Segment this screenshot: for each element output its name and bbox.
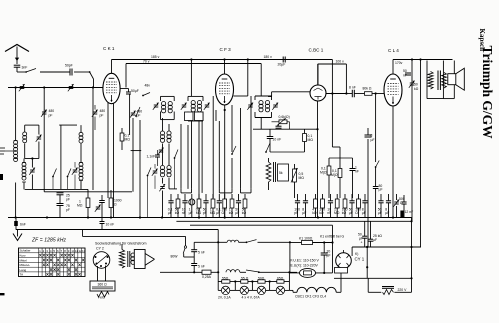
tube socket CY2 xyxy=(93,252,110,269)
capacitor 100pF xyxy=(294,194,300,218)
resistor 100kΩ xyxy=(319,194,325,218)
svg-text:MΩ: MΩ xyxy=(196,211,202,215)
coil choke 2 xyxy=(227,240,238,242)
svg-text:µF: µF xyxy=(216,211,220,215)
speaker frame xyxy=(443,61,454,99)
resistor K1 100 xyxy=(299,237,313,245)
switch xyxy=(52,169,56,190)
wire xyxy=(92,86,94,190)
label lamps xyxy=(218,296,260,300)
svg-text:Feld: Feld xyxy=(98,296,105,300)
switch xyxy=(231,146,236,155)
capacitor 10nF xyxy=(327,194,333,218)
svg-text:pF: pF xyxy=(49,114,53,118)
box CY1 xyxy=(335,268,348,274)
svg-text:220 V: 220 V xyxy=(398,288,408,292)
svg-text:C.BC 1: C.BC 1 xyxy=(309,48,324,53)
heater resistor xyxy=(119,244,124,268)
svg-text:0,25A: 0,25A xyxy=(202,275,212,279)
trimmer 500 xyxy=(393,194,404,218)
trimmer C xyxy=(68,84,74,91)
svg-text:kΩ: kΩ xyxy=(342,211,347,215)
svg-text:Sockelschaltung für Gleichstro: Sockelschaltung für Gleichstrom xyxy=(95,242,147,246)
svg-text:CY 2: CY 2 xyxy=(96,247,104,251)
svg-text:kΩ: kΩ xyxy=(175,211,180,215)
capacitor 50pF xyxy=(203,194,209,218)
coil L3 xyxy=(23,132,27,143)
svg-text:µF: µF xyxy=(362,211,366,215)
wire bus3 xyxy=(190,225,333,242)
capacitor 80uF xyxy=(373,94,383,218)
wire heater rail xyxy=(160,271,297,273)
coil RF choke xyxy=(226,270,240,273)
svg-text:MΩ: MΩ xyxy=(299,176,305,180)
capacitor 1.1nF xyxy=(147,150,161,166)
svg-text:50Ω: 50Ω xyxy=(258,277,265,281)
resistor 50kΩ xyxy=(242,194,247,218)
label ZF xyxy=(31,238,67,244)
svg-text:55Ω: 55Ω xyxy=(222,277,229,281)
capacitor 10nF xyxy=(100,218,115,230)
capacitor 8nF xyxy=(346,86,361,98)
resistor 65 xyxy=(277,277,284,284)
capacitor xyxy=(99,195,105,218)
wire xyxy=(0,0,1,1)
resistor 0.5M xyxy=(331,147,342,198)
label CY2 xyxy=(96,247,104,251)
wire xyxy=(113,103,115,218)
tube CF3 xyxy=(216,47,234,105)
tube CK1 xyxy=(103,46,120,104)
wire out bus xyxy=(393,58,453,60)
coil L5 xyxy=(79,132,83,143)
trimmer C xyxy=(272,103,278,110)
wire xyxy=(290,241,334,273)
wire xyxy=(411,60,413,222)
wire xyxy=(187,125,189,189)
trimmer C xyxy=(247,103,253,110)
svg-text:8: 8 xyxy=(371,134,373,138)
zigzag feld xyxy=(97,292,109,298)
capacitor 20uF xyxy=(278,57,286,67)
trimmer 480pF xyxy=(41,109,54,118)
padding capacitor xyxy=(185,112,204,121)
wire xyxy=(25,125,39,158)
resistor 100Ω xyxy=(222,194,228,218)
coil L6 xyxy=(79,163,83,190)
resistor 0.1M xyxy=(320,158,331,198)
svg-text:360 Ω: 360 Ω xyxy=(98,283,108,287)
wire xyxy=(410,218,412,293)
svg-text:2V, 0,1A: 2V, 0,1A xyxy=(218,296,231,300)
antenna xyxy=(5,45,29,65)
coil osc1 xyxy=(160,131,171,142)
wire xyxy=(224,105,226,218)
speaker xyxy=(448,68,465,90)
resistor 1MΩ xyxy=(334,194,340,218)
wire bus4 xyxy=(16,230,219,273)
table switch positions xyxy=(19,248,86,277)
resistor 0.1M xyxy=(270,129,313,152)
trimmer C xyxy=(29,159,35,190)
svg-text:pF: pF xyxy=(66,208,70,212)
svg-text:nF: nF xyxy=(355,170,359,174)
svg-text:4 x 4 V, 67A: 4 x 4 V, 67A xyxy=(242,296,261,300)
resistor 100Ω xyxy=(355,194,361,218)
wire xyxy=(0,0,1,1)
wire xyxy=(368,278,411,292)
switch xyxy=(25,69,36,73)
label K1 xyxy=(320,235,344,239)
svg-text:80k Ω: 80k Ω xyxy=(363,87,372,91)
capacitor 8µF xyxy=(362,194,368,218)
switch xyxy=(67,169,71,190)
svg-text:180 v: 180 v xyxy=(264,55,273,59)
resistor 0.1M xyxy=(120,128,130,150)
wire xyxy=(163,178,170,189)
wire xyxy=(192,121,220,189)
svg-text:pF: pF xyxy=(66,198,70,202)
svg-text:kΩ: kΩ xyxy=(319,211,324,215)
switch 80W xyxy=(171,246,195,259)
svg-text:50: 50 xyxy=(414,83,418,87)
coil osc2 xyxy=(160,166,171,177)
wire xyxy=(139,120,141,218)
variable resistor 50k xyxy=(409,81,419,91)
svg-text:Mittel+L: Mittel+L xyxy=(20,263,31,267)
capacitor 5nF xyxy=(191,242,205,254)
svg-text:CBC1 CK1 CF3 CL4: CBC1 CK1 CF3 CL4 xyxy=(295,295,326,299)
label 100V xyxy=(336,60,345,64)
trimmer R xyxy=(95,205,101,212)
wire xyxy=(174,158,176,189)
capacitor 25uF xyxy=(368,221,373,247)
wire bus2 xyxy=(176,220,412,222)
svg-text:µF: µF xyxy=(371,138,375,142)
wire xyxy=(223,58,225,74)
resistor 1kΩ xyxy=(229,194,234,218)
wire xyxy=(231,105,233,189)
wire xyxy=(253,118,318,130)
svg-text:pF: pF xyxy=(100,114,104,118)
svg-text:5 nF: 5 nF xyxy=(198,251,205,255)
trimmer C xyxy=(72,162,78,189)
trimmer C xyxy=(159,184,165,217)
label sockelschaltung xyxy=(95,242,147,246)
svg-text:480: 480 xyxy=(49,109,55,113)
label 50 25 xyxy=(358,233,382,245)
wire xyxy=(111,60,113,74)
mark xyxy=(0,293,5,295)
svg-text:pF: pF xyxy=(294,211,298,215)
svg-text:50pF: 50pF xyxy=(65,64,73,68)
lamp xyxy=(221,286,229,294)
resistor 55 xyxy=(222,277,230,284)
svg-text:8 nF: 8 nF xyxy=(349,86,356,90)
switch xyxy=(265,143,270,153)
svg-text:C L 4: C L 4 xyxy=(388,48,399,53)
wire xyxy=(0,0,1,1)
svg-text:Kurz: Kurz xyxy=(20,254,27,258)
svg-text:TA: TA xyxy=(20,273,24,277)
switch xyxy=(174,150,178,159)
svg-text:10 nF: 10 nF xyxy=(273,138,282,142)
wire xyxy=(332,146,340,148)
switch xyxy=(142,93,150,97)
svg-text:48v: 48v xyxy=(145,84,151,88)
title triumph xyxy=(480,46,495,140)
svg-text:Mittel: Mittel xyxy=(20,258,28,262)
capacitor 25pF xyxy=(57,193,70,203)
coil L1 xyxy=(14,141,18,162)
wire xyxy=(181,121,202,193)
wire xyxy=(198,121,200,218)
capacitor 50uF xyxy=(120,89,138,95)
svg-text:Ω: Ω xyxy=(355,211,358,215)
ground bus xyxy=(8,216,412,218)
tube CBC1 xyxy=(309,48,327,102)
label 180V xyxy=(264,55,273,59)
fuse 0.25A xyxy=(202,270,212,279)
capacitor xyxy=(401,195,406,218)
trimmer 480pF xyxy=(130,110,142,118)
wire xyxy=(25,188,88,190)
trimmer C xyxy=(36,125,42,158)
wire xyxy=(268,92,310,97)
capacitor 50µF xyxy=(378,194,384,218)
svg-text:13: 13 xyxy=(82,249,86,253)
variable resistor 0.6k xyxy=(272,115,290,129)
svg-text:µF: µF xyxy=(385,211,389,215)
switch xyxy=(147,168,151,218)
trimmer 480pF xyxy=(92,105,105,130)
lamp xyxy=(276,286,284,294)
capacitor 6nF xyxy=(14,218,26,230)
output transformer 2 xyxy=(128,251,135,267)
svg-text:480: 480 xyxy=(100,109,106,113)
svg-text:Triumph G/GW: Triumph G/GW xyxy=(480,46,495,140)
svg-text:nF: nF xyxy=(403,74,407,78)
wire xyxy=(15,86,17,218)
staple xyxy=(181,189,192,193)
resistor 360 xyxy=(90,281,115,291)
trimmer C xyxy=(153,103,159,110)
svg-text:0,6k(Ω): 0,6k(Ω) xyxy=(279,115,290,119)
capacitor xyxy=(350,158,359,198)
wire xyxy=(240,108,242,189)
capacitor 12nF xyxy=(400,210,413,217)
wire xyxy=(98,266,106,282)
IF transformer 3 xyxy=(255,96,272,118)
wire xyxy=(0,0,1,1)
wire xyxy=(59,125,81,132)
AF transformer xyxy=(266,158,288,190)
svg-text:55,Ω: 55,Ω xyxy=(241,277,249,281)
svg-text:50: 50 xyxy=(403,69,407,73)
wire xyxy=(44,191,132,193)
wire xyxy=(43,86,45,191)
switch xyxy=(89,71,94,87)
wire xyxy=(352,246,421,256)
wire xyxy=(212,96,214,198)
heater chain xyxy=(295,273,341,299)
wire xyxy=(420,60,422,248)
wire xyxy=(392,60,394,75)
resistor 100kΩ xyxy=(342,194,348,218)
svg-text:10 nF: 10 nF xyxy=(106,223,115,227)
wire xyxy=(318,64,348,95)
capacitor 8µF xyxy=(302,194,308,218)
output transformer xyxy=(427,61,446,99)
capacitor 20uF xyxy=(321,241,331,274)
svg-text:170v: 170v xyxy=(395,61,403,65)
wire anode xyxy=(326,93,346,95)
svg-text:Schalter: Schalter xyxy=(20,249,31,253)
svg-text:M(Ω): M(Ω) xyxy=(320,171,328,175)
svg-text:µF: µF xyxy=(373,238,377,242)
IF transformer 1 xyxy=(161,96,175,119)
capacitor 50nF xyxy=(403,69,411,78)
resistor 55 xyxy=(241,277,249,284)
capacitor 1µF xyxy=(189,194,195,218)
wire xyxy=(80,144,82,163)
trimmer C xyxy=(181,103,187,110)
svg-text:+: + xyxy=(361,241,363,245)
lamp ladder xyxy=(218,272,289,290)
wire xyxy=(132,118,134,192)
wire xyxy=(234,58,249,96)
svg-text:F.U.E1: 110-150 V: F.U.E1: 110-150 V xyxy=(291,259,320,263)
wire xyxy=(366,246,368,278)
wire xyxy=(185,236,187,246)
trimmer C xyxy=(19,84,25,91)
IF transformer 2 xyxy=(188,96,203,121)
potentiometer 0.5M xyxy=(291,164,304,198)
label mains xyxy=(291,259,320,268)
svg-text:kΩ: kΩ xyxy=(312,211,317,215)
wire xyxy=(163,118,170,165)
capacitor 5nF xyxy=(191,252,205,273)
capacitor 3nF xyxy=(14,65,28,72)
capacitor 50uF xyxy=(362,221,367,247)
svg-text:70 v: 70 v xyxy=(143,60,150,64)
resistor 50 xyxy=(258,277,265,284)
capacitor 0,1µF xyxy=(216,194,222,218)
resistor 1MΩ xyxy=(210,194,216,218)
tube CL4 xyxy=(384,48,402,106)
wire xyxy=(250,96,252,189)
terminal xyxy=(0,148,16,154)
svg-text:nF: nF xyxy=(182,211,186,215)
svg-text:MΩ: MΩ xyxy=(334,211,340,215)
svg-text:K1 entfällt bei G: K1 entfällt bei G xyxy=(320,235,344,239)
svg-text:100 v: 100 v xyxy=(336,60,345,64)
capacitor 8uF xyxy=(365,128,375,247)
title kapsch xyxy=(478,29,486,52)
svg-text:pF: pF xyxy=(203,211,207,215)
svg-text:3nF: 3nF xyxy=(22,66,28,70)
svg-text:kΩ: kΩ xyxy=(242,211,247,215)
svg-text:CY 1: CY 1 xyxy=(355,257,365,262)
svg-text:12 nF: 12 nF xyxy=(405,210,414,214)
svg-text:MΩ: MΩ xyxy=(210,211,216,215)
capacitor 50µF xyxy=(349,194,355,218)
svg-text:M(Ω): M(Ω) xyxy=(331,173,339,177)
wire xyxy=(0,0,1,1)
svg-text:65Ω: 65Ω xyxy=(277,277,284,281)
svg-text:E.U(X): 110-220V: E.U(X): 110-220V xyxy=(291,264,319,268)
terminal xyxy=(0,174,3,180)
wire xyxy=(0,0,1,1)
capacitor 0,1µF xyxy=(168,194,174,218)
resistor 4kΩ xyxy=(312,194,317,218)
svg-text:6nF: 6nF xyxy=(20,223,26,227)
wire xyxy=(260,64,262,97)
switch xyxy=(246,270,260,273)
resistor 1000 xyxy=(109,190,122,218)
capacitor 50pF xyxy=(65,64,73,76)
svg-text:MΩ: MΩ xyxy=(125,138,131,142)
svg-text:Lang: Lang xyxy=(20,268,27,272)
capacitor 75pF xyxy=(57,204,70,218)
label 170v xyxy=(395,61,403,65)
svg-text:kΩ: kΩ xyxy=(229,211,234,215)
svg-text:µF: µF xyxy=(235,211,239,215)
wire xyxy=(107,103,109,199)
svg-text:µF: µF xyxy=(379,188,383,192)
wire xyxy=(190,58,192,96)
svg-text:5k: 5k xyxy=(279,171,283,175)
capacitor 10nF xyxy=(182,194,188,218)
capacitor 8µF xyxy=(385,194,391,218)
barretter 220V xyxy=(382,287,407,295)
svg-text:185 v: 185 v xyxy=(151,55,160,59)
wire 185V bus xyxy=(112,55,333,60)
svg-text:kΩ: kΩ xyxy=(414,87,419,91)
staple xyxy=(219,189,232,193)
svg-text:K1 100Ω: K1 100Ω xyxy=(299,237,313,241)
switch xyxy=(135,107,140,117)
svg-text:µF: µF xyxy=(378,211,382,215)
trimmer C xyxy=(152,164,158,189)
svg-text:µF: µF xyxy=(349,211,353,215)
wire xyxy=(25,157,39,159)
wire xyxy=(60,125,62,189)
wire xyxy=(129,94,131,135)
svg-text:µF: µF xyxy=(302,211,306,215)
wire xyxy=(0,0,1,1)
ground xyxy=(13,230,22,241)
capacitor 10nF xyxy=(267,129,281,152)
coil L2 xyxy=(22,159,26,190)
trimmer C xyxy=(158,148,164,155)
svg-text:K): K) xyxy=(355,252,358,256)
label 48v xyxy=(145,84,151,88)
wire xyxy=(215,110,217,121)
wire xyxy=(289,290,297,292)
fuse xyxy=(300,268,316,277)
wire heater 2 xyxy=(194,240,291,244)
capacitor 50µF xyxy=(235,194,241,218)
svg-text:5 nF: 5 nF xyxy=(198,265,205,269)
svg-text:pF: pF xyxy=(137,114,141,118)
svg-text:C F 3: C F 3 xyxy=(220,47,232,52)
label feld xyxy=(98,296,105,300)
speaker 2 xyxy=(134,250,154,269)
svg-text:MΩ: MΩ xyxy=(308,138,314,142)
capacitor 100pF xyxy=(276,124,282,128)
trimmer C xyxy=(204,103,210,110)
